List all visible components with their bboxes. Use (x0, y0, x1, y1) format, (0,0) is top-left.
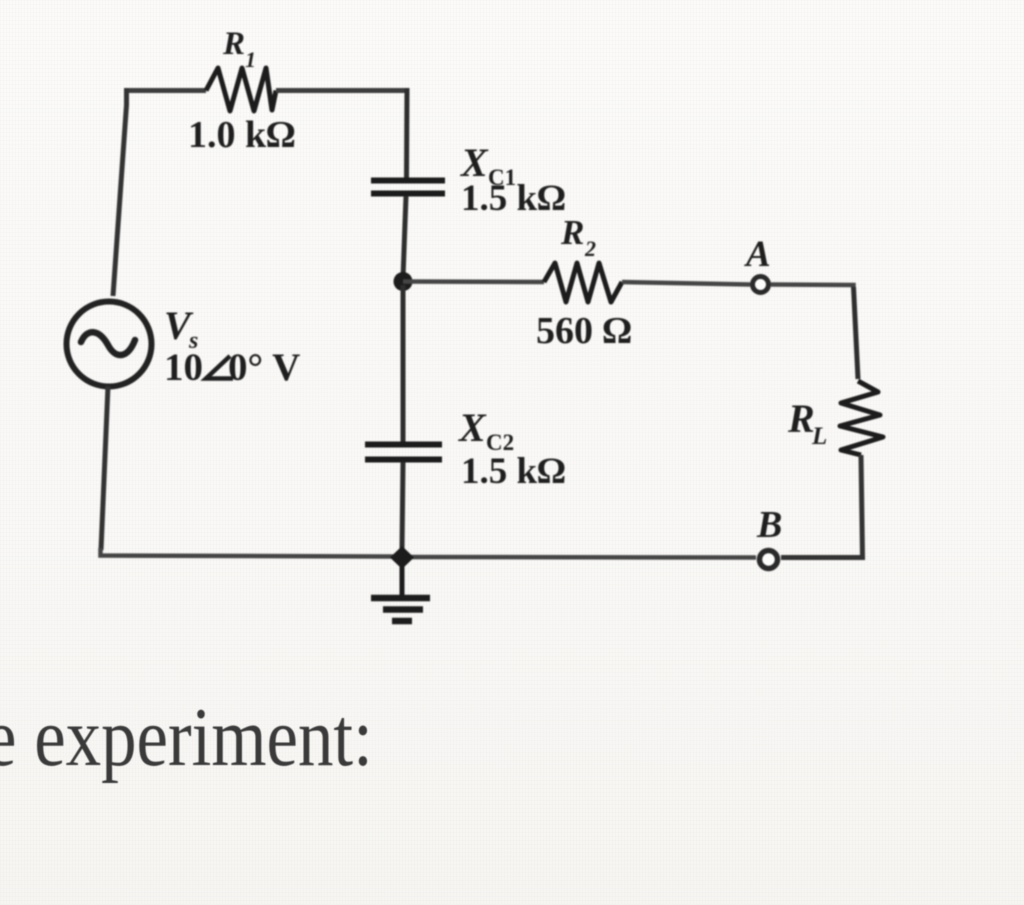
wire node A to right corner (771, 285, 854, 290)
resistor R1 (206, 68, 276, 111)
svg-text:560 Ω: 560 Ω (536, 310, 632, 352)
wire node B to bottom junction (409, 555, 756, 560)
wire top horizontal left (corner to R1) (127, 91, 206, 94)
svg-text:R: R (787, 396, 815, 441)
svg-text:1.0 kΩ: 1.0 kΩ (188, 114, 295, 156)
wire bottom left run (101, 548, 397, 557)
wire C1 to mid junction (403, 196, 406, 278)
AC source VS (67, 302, 152, 387)
resistor RL (840, 381, 883, 455)
svg-text:1: 1 (245, 47, 256, 72)
svg-text:X: X (457, 405, 487, 450)
label VS (164, 303, 198, 354)
capacitor C1 (XC1) (371, 181, 445, 194)
svg-text:0° V: 0° V (228, 346, 300, 389)
wire mid junction to R2 (403, 279, 544, 284)
label R2 (560, 213, 596, 261)
svg-text:R: R (560, 213, 584, 252)
node A terminal (753, 277, 769, 293)
label XC2 (457, 405, 514, 455)
wire middle vertical top (corner to C1) (404, 88, 410, 178)
capacitor C2 (XC2) (365, 445, 442, 460)
svg-text:1.5 kΩ: 1.5 kΩ (461, 178, 566, 219)
svg-text:R: R (222, 26, 245, 62)
wire R1 to top-right corner (276, 88, 407, 93)
svg-text:B: B (756, 504, 782, 546)
wire source bottom to corner (101, 386, 108, 550)
wire left vertical (113, 88, 127, 296)
svg-text:L: L (811, 423, 827, 450)
label RL (787, 396, 827, 450)
wire mid vertical junction to C2 (401, 285, 406, 442)
junction node (bottom) (390, 546, 414, 569)
value 10 angle 0 deg V (164, 346, 300, 389)
ground (371, 565, 430, 621)
wire right vertical down to RL (854, 287, 859, 379)
wire R2 to node A (622, 282, 750, 285)
label XC1 (459, 140, 516, 190)
resistor R2 (544, 263, 622, 302)
label R1 (222, 26, 256, 72)
node B terminal (760, 551, 778, 569)
wire C2 to bottom junction (402, 462, 403, 550)
junction node (mid) (394, 272, 413, 291)
svg-text:1.5 kΩ: 1.5 kΩ (461, 451, 566, 492)
svg-text:A: A (744, 234, 771, 275)
caption text (0, 696, 423, 780)
svg-text:10: 10 (164, 346, 203, 389)
svg-text:2: 2 (584, 236, 596, 261)
wire RL bottom to bottom-right corner (781, 455, 863, 558)
